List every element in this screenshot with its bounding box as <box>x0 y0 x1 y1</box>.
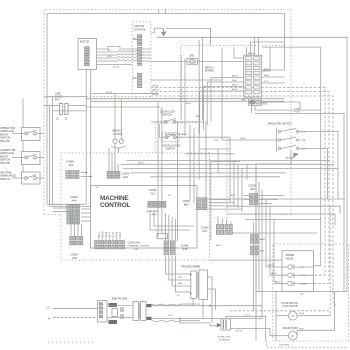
wire: AA14 left stub 1 <box>211 78 244 122</box>
wire: pressure switch common feed <box>222 139 278 141</box>
svg-text:SOLENOID: SOLENOID <box>219 339 231 341</box>
wire: house line run <box>44 96 86 98</box>
wire: fuse feed run <box>86 106 160 108</box>
wire: valve feed cold <box>270 274 288 276</box>
inner frame bottom stub left <box>47 204 61 206</box>
wire: motor lead 4 <box>97 57 151 58</box>
svg-text:CONN: CONN <box>67 159 75 163</box>
wire: AA14 top-left entry <box>234 47 244 58</box>
node: junction on neutral <box>179 318 181 320</box>
neutral unbalance switch <box>22 172 41 184</box>
wire: EMI output squiggle bottom <box>152 320 201 321</box>
svg-text:CONTROL: CONTROL <box>133 28 146 32</box>
wire: feeder to water valve hot <box>262 47 321 266</box>
wire: vertical 218 <box>217 149 219 173</box>
svg-text:BK-16: BK-16 <box>153 86 159 88</box>
svg-text:AA7: AA7 <box>203 230 208 233</box>
wire: border-hug returns <box>53 203 87 205</box>
svg-text:AA2: AA2 <box>123 175 128 179</box>
wire: transformer secondary leads <box>208 277 213 323</box>
wire: AA14 right stub 1 <box>262 47 270 71</box>
wire: valve common returns <box>292 266 313 268</box>
svg-text:WH-2: WH-2 <box>232 80 238 82</box>
wire: motor lead 3 <box>97 54 151 55</box>
wire: main feeder L1 top run <box>157 37 347 330</box>
svg-text:L1B: L1B <box>178 277 182 279</box>
pressure switch contact 1 <box>278 130 280 132</box>
svg-text:6A RATED: 6A RATED <box>165 133 175 136</box>
pressure switch contact 2 <box>278 139 280 141</box>
wire: switch chain vertical link <box>22 99 24 128</box>
wire: door region link 1 <box>199 148 230 150</box>
wire: control bundle 2 (dashed) <box>151 91 329 283</box>
wire: aux link y80 <box>151 79 222 81</box>
wire: AA4 leads left <box>53 207 67 209</box>
wire: AA4 leads right <box>81 208 90 210</box>
transformer T1 secondary winding <box>199 270 208 300</box>
EMI filter choke <box>133 302 139 321</box>
svg-text:L1.N: L1.N <box>168 315 173 317</box>
wire: AA14 bottom drops <box>246 97 248 99</box>
svg-text:MOTOR: MOTOR <box>80 40 89 43</box>
drain pump motor <box>289 331 298 340</box>
svg-text:CONN: CONN <box>70 195 78 199</box>
wire: solenoid top lead right <box>226 316 266 341</box>
third valve solenoid <box>288 281 292 285</box>
svg-text:115V 60HZ: 115V 60HZ <box>279 345 290 347</box>
connector BB2 pins <box>251 246 259 255</box>
border tie ticks top <box>158 10 160 14</box>
wire: DB1 to AA14 <box>198 60 244 62</box>
svg-text:OR-7: OR-7 <box>119 231 122 237</box>
wire: lock motor right drop (dashed) <box>329 206 331 316</box>
wire: pressure switch out 2 <box>298 149 328 200</box>
service outlet <box>113 139 117 143</box>
svg-text:BU-18: BU-18 <box>153 94 160 96</box>
wire: motor connector down leads <box>85 69 87 204</box>
wire: EMI output neutral <box>152 318 263 320</box>
fold mark dotted line <box>48 341 94 343</box>
door lock switch <box>164 120 167 123</box>
connector MC3 pins <box>137 47 141 65</box>
wire: N into EMI filter (dashed) <box>53 317 98 319</box>
connector AA14 shell <box>244 55 262 97</box>
svg-text:EMI FILTER: EMI FILTER <box>112 297 127 301</box>
svg-text:DB1: DB1 <box>190 55 195 58</box>
chassis ground arrow <box>162 28 164 32</box>
svg-text:PL8H: PL8H <box>301 140 306 142</box>
svg-text:CONN AA3: CONN AA3 <box>128 241 141 244</box>
svg-text:BB1: BB1 <box>184 203 189 206</box>
wire: door closed switch left link <box>159 136 165 138</box>
svg-text:RD-14: RD-14 <box>232 85 239 87</box>
connector AA14 pins <box>245 57 260 94</box>
svg-text:AA4: AA4 <box>72 199 77 203</box>
svg-text:MOTOR: MOTOR <box>135 24 145 28</box>
wire bundle: AA2 to DL1 cross runs <box>121 163 335 165</box>
wire: M1-34 run <box>91 92 158 94</box>
transformer T1 primary winding <box>191 271 197 299</box>
door lock solenoid <box>221 319 231 330</box>
pressure switch ground arrow <box>291 156 295 164</box>
connector AA1 pins <box>66 171 79 179</box>
wire: AA14 aux to frame <box>262 69 285 71</box>
wire: BB1 leads right <box>208 199 230 201</box>
cabinet boundary bottom stub left <box>44 213 61 215</box>
transformer core <box>196 272 198 298</box>
svg-text:AA1: AA1 <box>69 163 74 167</box>
wire: valve feed run 2 <box>227 206 340 214</box>
svg-text:DOOR LOCK: DOOR LOCK <box>218 336 232 338</box>
svg-text:CONN: CONN <box>122 171 130 175</box>
svg-text:AA14: AA14 <box>248 51 255 55</box>
connector DL1 pins <box>148 201 166 207</box>
EMI filter caps mid <box>120 307 122 312</box>
wire: AA2 risers <box>108 148 110 171</box>
wire: AA6 leads right <box>259 195 285 197</box>
connector AA8 pins <box>164 241 175 255</box>
wire: AA5 risers <box>70 215 72 236</box>
svg-text:MACHINE: MACHINE <box>100 195 129 202</box>
wire: control bundle 1 (dashed) <box>151 88 325 276</box>
svg-text:CU8: CU8 <box>134 249 139 251</box>
wire: house line run dashed continuation <box>86 96 151 98</box>
svg-text:PRESSURE SWITCH: PRESSURE SWITCH <box>268 123 292 126</box>
door switch assembly enclosure (dashed) <box>155 123 209 153</box>
door closed switch frame <box>163 133 180 142</box>
connector AA7 pins <box>216 225 232 235</box>
wire: transformer primary bottom leads <box>192 299 194 306</box>
pressure switch contact 3 <box>278 147 280 149</box>
wire: run to door lock solenoid <box>180 319 217 326</box>
EMI filter input connector <box>98 301 108 323</box>
wire: EMI output squiggle top <box>152 304 201 305</box>
EMI filter capacitor C2 (bottom) <box>109 320 118 324</box>
svg-text:BK-34: BK-34 <box>232 76 238 78</box>
wire: motor lead 2 <box>97 51 151 52</box>
wire: door lock switch right <box>176 121 203 123</box>
wire: door closed switch right <box>177 136 231 138</box>
wire: motor control to DB1 <box>151 60 187 62</box>
door lock motor <box>289 311 298 320</box>
wire: left drops to valve assembly <box>261 190 263 319</box>
svg-text:BOARD: BOARD <box>205 70 214 73</box>
svg-text:PL2H: PL2H <box>295 108 301 110</box>
thermal cutoff link box <box>157 234 168 239</box>
pressure switch body <box>276 128 278 153</box>
svg-text:N: N <box>48 316 50 320</box>
svg-text:4A 4P: 4A 4P <box>286 157 292 160</box>
svg-text:DLS: DLS <box>300 294 305 296</box>
svg-text:PL1N: PL1N <box>295 112 301 114</box>
wire: MC2 to ground riser <box>151 28 162 33</box>
line fuse component <box>60 104 63 115</box>
svg-text:AA11: AA11 <box>260 238 266 241</box>
svg-text:AA5: AA5 <box>72 256 77 260</box>
wire: valve feed hot <box>266 266 288 268</box>
wire: motor lead 6 <box>97 64 133 66</box>
wire: riser 253 <box>252 222 254 311</box>
wire: BR2 out right <box>262 101 301 103</box>
wire: bottom right bus <box>256 290 335 292</box>
machine control board outline <box>90 186 197 248</box>
EMI filter output terminals <box>147 304 152 307</box>
wire: lock motor right lead <box>297 315 330 317</box>
wire: console bottom extension <box>209 259 282 261</box>
svg-text:VALVE: VALVE <box>286 257 294 260</box>
wire: AA14 left stub 3 <box>203 87 243 131</box>
svg-text:WH-2: WH-2 <box>264 75 270 77</box>
svg-text:BU 1: BU 1 <box>108 50 112 52</box>
svg-text:DL.C: DL.C <box>245 315 250 317</box>
wire: PL1N run <box>255 112 344 114</box>
cold valve solenoid <box>288 273 292 277</box>
wire: solenoid bottom lead right <box>231 329 277 336</box>
svg-text:DOOR SWITCH: DOOR SWITCH <box>282 303 299 305</box>
wire: AA14 left stub 4 <box>200 91 244 134</box>
wire: ground run to relay enclosure <box>166 29 211 46</box>
wire: lock motor left lead <box>276 315 289 317</box>
svg-text:DRAIN PUMP: DRAIN PUMP <box>283 327 298 330</box>
connector AA4 pins <box>67 205 80 224</box>
relay assembly enclosure (dashed) <box>181 45 285 101</box>
svg-text:(THERMAL CUTOFF): (THERMAL CUTOFF) <box>128 245 150 248</box>
wire: motor lead 5 <box>97 60 151 61</box>
svg-text:(BTM VIEW): (BTM VIEW) <box>147 211 160 213</box>
connector AA5 pins <box>70 236 83 244</box>
console enclosure (dashed) <box>61 153 209 260</box>
wire: drain pump right lead <box>296 330 298 335</box>
cabinet boundary (dashed outer frame) <box>44 10 291 215</box>
EMI filter capacitor C1 (top) <box>109 303 118 307</box>
upper tub displacement switch SW-709 <box>22 128 41 141</box>
wire: motor lead 1 <box>97 47 151 50</box>
wire: AA8 risers <box>165 213 167 241</box>
connector BB1 pins <box>197 198 208 210</box>
svg-text:WARM: WARM <box>300 282 307 285</box>
connector AA6 pins <box>250 194 258 205</box>
EMI filter resistor block <box>112 309 118 317</box>
svg-text:VA.C3: VA.C3 <box>275 280 282 283</box>
wire: drain pump left lead <box>276 335 289 337</box>
wire: service outlet feeds <box>114 93 116 139</box>
svg-text:RD 2: RD 2 <box>108 56 112 58</box>
wire: door region link 2 <box>185 153 234 155</box>
svg-text:CONTROL: CONTROL <box>100 202 130 209</box>
wire: pressure switch down lead <box>256 150 291 341</box>
wire: AA7 long run right <box>227 232 317 234</box>
wire: AA14 left stub 2 <box>207 82 244 125</box>
valve assembly enclosure (dashed) <box>273 244 349 341</box>
svg-text:L1: L1 <box>47 305 51 309</box>
lower tub displacement switch SW-708 <box>22 152 41 165</box>
motor connector shell <box>78 39 97 70</box>
wire: pressure switch out 1 <box>298 132 339 200</box>
wire: EMI internal links <box>107 305 133 307</box>
motor control board enclosure <box>132 22 151 94</box>
svg-text:LOCK MOTOR: LOCK MOTOR <box>283 306 299 308</box>
svg-text:SW-708: SW-708 <box>0 161 10 165</box>
wire: AA1 leads right <box>81 172 87 174</box>
svg-text:DP.N: DP.N <box>299 328 304 330</box>
wire: AA7 risers <box>217 216 219 225</box>
wire: neutral run <box>86 98 284 100</box>
svg-text:DL.M: DL.M <box>299 313 304 315</box>
connector AA3 pins <box>95 241 125 249</box>
svg-text:FILT: FILT <box>55 99 60 102</box>
svg-text:N1B: N1B <box>178 283 183 285</box>
svg-text:M1 34: M1 34 <box>106 92 113 94</box>
wire: AA14 right stub 2 <box>262 76 285 78</box>
svg-text:SWITCH: SWITCH <box>0 177 10 181</box>
wire: valve feed run 3 <box>227 214 335 225</box>
svg-text:CONN: CONN <box>70 253 78 257</box>
node: transformer pin dots <box>190 274 192 276</box>
svg-text:SWITCH: SWITCH <box>166 148 176 151</box>
wire: door lock switch left <box>151 121 164 123</box>
svg-text:BK-16: BK-16 <box>138 162 144 164</box>
wire: pump assembly dashed bottom <box>266 341 348 347</box>
wire: control bundle 3 (dashed) <box>151 96 338 305</box>
wire: AA6 stubs left <box>244 195 250 197</box>
svg-text:WH-17: WH-17 <box>153 90 160 92</box>
svg-text:SOL-N: SOL-N <box>236 330 243 332</box>
wire: fuse to right <box>68 105 86 107</box>
svg-text:M1 14: M1 14 <box>114 67 119 69</box>
motor connector pins <box>85 47 90 66</box>
svg-text:2C: 2C <box>177 295 180 297</box>
wire: DL1 drop runs <box>149 210 151 230</box>
cabinet boundary bottom stub right <box>240 213 291 215</box>
wire: door region link 3 <box>211 161 240 163</box>
door closed switch <box>165 136 168 139</box>
svg-text:SW-709: SW-709 <box>0 139 10 143</box>
wire: L1 into EMI filter <box>53 308 98 310</box>
svg-text:CONN: CONN <box>149 188 157 192</box>
connector AA2 pins <box>107 171 120 178</box>
water valve box <box>282 251 314 292</box>
svg-text:BU-15: BU-15 <box>232 89 239 91</box>
wire: PL2H run <box>255 109 321 111</box>
connector AA11 pins <box>251 235 259 244</box>
wire: valve feed run 4 <box>245 219 321 221</box>
svg-text:AA8: AA8 <box>183 248 188 251</box>
svg-text:AA6: AA6 <box>250 188 255 191</box>
wire: fuse loop link <box>53 110 87 112</box>
wire: line run <box>91 100 285 102</box>
wire: EMI output line <box>152 305 263 307</box>
connector MC1 pins <box>137 73 141 87</box>
buzzer BR2 <box>249 99 262 105</box>
wire: AA14 top risers <box>246 47 248 55</box>
svg-text:SWITCH: SWITCH <box>162 114 172 117</box>
wire: AA14 right stub 3 <box>262 82 285 84</box>
wire bundle: center verticals <box>157 101 159 237</box>
wire: door motor dashed link <box>230 310 330 312</box>
wire: service outlet drops <box>114 143 116 171</box>
svg-text:TRANSFORMER: TRANSFORMER <box>181 265 201 268</box>
hot valve solenoid <box>288 265 292 269</box>
svg-text:AA10: AA10 <box>152 213 158 216</box>
wire: label drops to AA3 <box>98 238 100 241</box>
wire: dashed drop 227 <box>226 140 228 225</box>
wire: AA8 drops to transformer <box>166 255 191 274</box>
wire: right PL1N drop <box>343 113 345 291</box>
thermal protector DB1 <box>187 59 198 65</box>
wire: pump feeds vertical <box>275 291 277 341</box>
inner chassis frame (solid) <box>47 14 285 205</box>
wire: third valve feed riser <box>273 220 275 284</box>
wire: valve feed 3 <box>274 282 288 284</box>
svg-text:DL1: DL1 <box>151 191 156 195</box>
wire: valve feed run 1 <box>209 198 345 200</box>
connector MC2 pins <box>137 35 141 46</box>
wire: into fuse from left border <box>44 105 60 107</box>
